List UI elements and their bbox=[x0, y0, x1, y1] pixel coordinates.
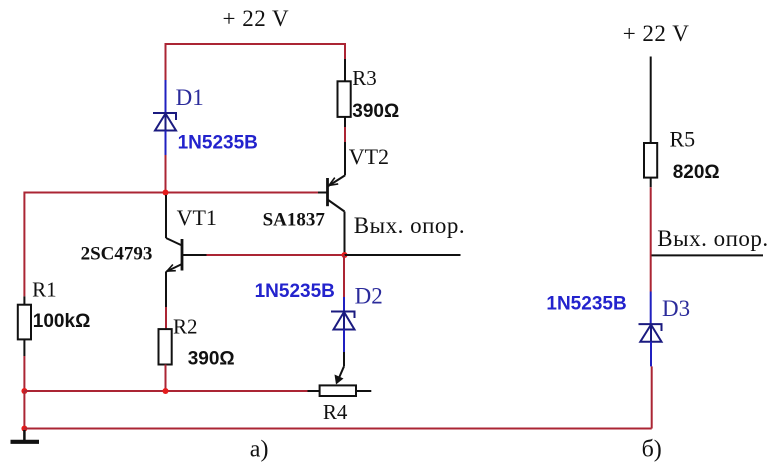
svg-text:R5: R5 bbox=[670, 127, 696, 152]
base stub bbox=[318, 192, 328, 194]
svg-text:2SC4793: 2SC4793 bbox=[81, 244, 153, 265]
svg-text:Вых. опор.: Вых. опор. bbox=[657, 226, 768, 251]
svg-text:390Ω: 390Ω bbox=[188, 349, 235, 370]
transistor VT2 (SA1837 PNP) bbox=[318, 175, 345, 255]
wire output node down to D2 bbox=[343, 255, 345, 297]
svg-text:D1: D1 bbox=[176, 85, 204, 110]
wire D1 anode down to node A bbox=[165, 131, 167, 156]
wire D3 anode down to bottom rail bbox=[650, 342, 652, 367]
base bar bbox=[326, 178, 329, 206]
svg-text:VT2: VT2 bbox=[349, 144, 389, 169]
zener diode D1 bbox=[153, 113, 176, 131]
wire VT1 base stub bbox=[182, 254, 207, 256]
wire sub-rail to R4 bbox=[24, 390, 307, 392]
wire R5 bottom down to D3 bbox=[650, 178, 652, 188]
emitter wire down bbox=[165, 272, 167, 308]
emitter with arrow bbox=[167, 264, 183, 272]
resistor R3 bbox=[338, 81, 351, 117]
wire output terminal (b) bbox=[652, 254, 764, 256]
base bar bbox=[181, 239, 184, 271]
svg-text:+ 22 V: + 22 V bbox=[623, 21, 690, 46]
zener diode D3 bbox=[639, 324, 662, 342]
zener diode D2 bbox=[331, 312, 355, 330]
node junction dot R2/sub-rail bbox=[163, 388, 169, 394]
svg-text:R1: R1 bbox=[32, 278, 57, 302]
svg-text:820Ω: 820Ω bbox=[673, 162, 720, 183]
svg-text:390Ω: 390Ω bbox=[352, 101, 399, 122]
emitter with arrow into base bbox=[328, 175, 346, 186]
wire R1 bottom to sub-rail bbox=[23, 339, 25, 356]
resistor R1 bbox=[18, 305, 31, 340]
svg-text:б): б) bbox=[642, 437, 662, 463]
wire R4 left lead bbox=[308, 390, 320, 392]
node junction dot left sub-rail bbox=[21, 388, 27, 394]
resistor R2 bbox=[159, 329, 172, 364]
svg-text:R4: R4 bbox=[323, 400, 348, 424]
wire left rail down to R1 bbox=[23, 192, 25, 297]
svg-text:+ 22 V: + 22 V bbox=[223, 6, 290, 31]
svg-text:Вых. опор.: Вых. опор. bbox=[354, 213, 465, 238]
wire R4 right stub bbox=[356, 390, 371, 392]
wire left rail down to ground bbox=[23, 391, 25, 429]
svg-text:1N5235B: 1N5235B bbox=[546, 294, 626, 315]
transistor VT1 (2SC4793 NPN) bbox=[166, 195, 182, 307]
svg-text:SA1837: SA1837 bbox=[263, 210, 326, 231]
wiper arrow onto R4 bbox=[339, 366, 345, 379]
wire output terminal (a) bbox=[345, 254, 461, 256]
svg-text:R2: R2 bbox=[173, 315, 198, 339]
potentiometer R4 bbox=[320, 385, 356, 396]
wire base to output node bbox=[207, 254, 345, 256]
wire R3 bottom to VT2 emitter bbox=[344, 117, 346, 127]
wire R2 bottom to sub-rail bbox=[165, 365, 167, 392]
wire D2 anode down bbox=[343, 330, 345, 353]
collector bbox=[328, 200, 345, 212]
wire +22V down to R5 bbox=[650, 57, 652, 144]
svg-text:VT1: VT1 bbox=[177, 205, 217, 230]
svg-text:R3: R3 bbox=[352, 66, 377, 90]
node A junction dot bbox=[163, 190, 169, 196]
ground bbox=[11, 430, 40, 442]
wire top +22V rail (circuit a) bbox=[166, 43, 346, 45]
svg-text:a): a) bbox=[250, 437, 269, 463]
wire horizontal rail from left rail to VT2 base bbox=[24, 192, 318, 194]
collector wire from node A down bbox=[165, 195, 167, 238]
wire bottom rail bbox=[24, 428, 651, 430]
wire R3 branch from +22V rail bbox=[344, 43, 346, 59]
node output junction dot bbox=[342, 252, 348, 258]
svg-text:1N5235B: 1N5235B bbox=[178, 133, 258, 154]
wire from +22V rail down to D1 cathode bbox=[165, 43, 167, 80]
svg-text:D2: D2 bbox=[355, 284, 383, 309]
svg-text:100kΩ: 100kΩ bbox=[33, 311, 91, 332]
svg-text:D3: D3 bbox=[662, 296, 690, 321]
node junction dot bottom rail bbox=[21, 426, 27, 432]
svg-text:1N5235B: 1N5235B bbox=[255, 281, 335, 302]
resistor R5 bbox=[644, 143, 657, 178]
